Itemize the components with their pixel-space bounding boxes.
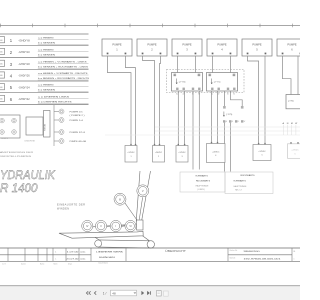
frame column ticks	[1, 24, 293, 28]
pilot line bus 1	[155, 126, 300, 128]
svg-text:1.07.00: 1.07.00	[67, 251, 80, 253]
svg-text:4: 4	[10, 74, 13, 79]
drawing frame top border	[0, 25, 300, 27]
svg-text:M: M	[291, 123, 293, 125]
svg-text:-GHD/Y8: -GHD/Y8	[18, 40, 30, 42]
toolbar snapshot icon	[156, 291, 161, 296]
svg-text:-GHD/Y34: -GHD/Y34	[18, 87, 30, 89]
svg-text:a = HEBEN: a = HEBEN	[38, 85, 54, 87]
svg-text:192-97845.08.005-001: 192-97845.08.005-001	[244, 259, 282, 261]
svg-text:6: 6	[294, 153, 295, 155]
supply box +24VDC 5	[253, 143, 271, 161]
function row 2 -GHD/Y10	[0, 48, 89, 56]
valve group dashed enclosure	[167, 70, 245, 93]
pump group bracket	[54, 105, 59, 146]
svg-text:46: 46	[0, 99, 2, 101]
svg-text:3: 3	[10, 62, 13, 67]
valve box Y76 (clipped)	[286, 95, 303, 109]
svg-text:PB: PB	[233, 75, 235, 77]
svg-text:(-Y76): (-Y76)	[288, 101, 294, 103]
company cell LIEBHERR WERK EHINGEN	[96, 251, 124, 264]
toolbar secondary icon	[164, 291, 169, 296]
crawler track	[95, 240, 155, 248]
svg-text:46: 46	[0, 40, 2, 42]
wire pump2 b	[160, 56, 161, 146]
svg-text:WINDEN: WINDEN	[57, 207, 69, 211]
svg-text:VERSTELLPUMPEN: VERSTELLPUMPEN	[0, 156, 32, 158]
svg-text:b = SENKEN + RÜCKWÄRTS - RECHT: b = SENKEN + RÜCKWÄRTS - RECHTS	[38, 77, 90, 80]
svg-text:b = SENKEN + RÜCKWÄRTS - LINKS: b = SENKEN + RÜCKWÄRTS - LINKS	[38, 65, 89, 68]
svg-text:R 1400: R 1400	[0, 181, 38, 195]
footer column labels	[2, 262, 73, 265]
pump box PUMPE 3	[172, 39, 202, 56]
toolbar page input	[111, 290, 137, 296]
svg-text:9840/200: 9840/200	[244, 251, 261, 253]
drawing number cells	[230, 250, 282, 260]
svg-text:LIEBHERR WERK: LIEBHERR WERK	[96, 251, 124, 253]
svg-text:IV: IV	[86, 225, 89, 228]
crane leader lines	[93, 197, 143, 227]
svg-text:1 /: 1 /	[103, 291, 107, 295]
svg-text:a = DREHEN LINKS: a = DREHEN LINKS	[38, 96, 70, 98]
winch position circle I	[110, 220, 121, 231]
svg-text:+24VDC: +24VDC	[258, 151, 266, 153]
svg-text:b = DREHEN RECHTS: b = DREHEN RECHTS	[38, 101, 72, 103]
svg-text:b = SENKEN: b = SENKEN	[38, 90, 56, 92]
pump box PUMPE 2	[137, 39, 167, 56]
crane body	[59, 231, 143, 238]
function row 3 -GHD/Y18	[0, 60, 89, 68]
svg-text:VORWÄRTS: VORWÄRTS	[195, 175, 208, 178]
svg-text:Zeichn.-Nr.: Zeichn.-Nr.	[230, 250, 238, 252]
solenoid valve Y70	[172, 73, 203, 96]
terminal panel B	[25, 117, 44, 143]
wire Y71 out2	[217, 91, 219, 144]
winch position circle V	[137, 185, 149, 197]
crane pivot housing	[137, 220, 144, 230]
svg-text:a = HEBEN: a = HEBEN	[38, 38, 54, 40]
svg-text:-GHD/Y10: -GHD/Y10	[18, 52, 30, 54]
svg-text:PUMPE: PUMPE	[182, 42, 191, 46]
svg-text:PB: PB	[198, 75, 200, 77]
terminal strip STROM	[44, 111, 51, 138]
function label box hauptwinde rechts	[225, 172, 273, 194]
svg-text:+24VDC: +24VDC	[291, 149, 299, 151]
svg-text:weiss: weiss	[80, 258, 85, 260]
svg-text:STROM: STROM	[45, 123, 47, 131]
svg-text:b = SENKEN: b = SENKEN	[38, 54, 56, 56]
svg-text:VI: VI	[129, 225, 132, 228]
supply box +24VDC 2	[153, 144, 165, 162]
svg-text:PUMPE: PUMPE	[287, 42, 296, 46]
svg-text:NR 2+7: NR 2+7	[235, 190, 241, 192]
winch position circle II	[95, 220, 106, 231]
wire Y70 out2	[184, 91, 186, 146]
svg-text:Bl.: Bl.	[294, 251, 297, 253]
wire Y70 out1	[177, 91, 179, 146]
wire pump6 a	[283, 56, 292, 95]
wire pump6 b	[297, 56, 299, 95]
svg-text:+24VDC: +24VDC	[212, 151, 220, 153]
svg-text:( LINKS ): ( LINKS )	[197, 189, 205, 191]
supply box +24VDC 4	[207, 142, 226, 163]
row separator lines	[0, 34, 89, 105]
svg-text:A: A	[283, 122, 285, 125]
wire pump4 a	[212, 56, 214, 73]
svg-text:5: 5	[10, 85, 13, 90]
pilot line bus 3	[105, 134, 300, 136]
crane boom line b	[142, 171, 151, 222]
svg-text:46: 46	[0, 87, 2, 89]
svg-text:(-Y 71): (-Y 71)	[214, 81, 221, 83]
toolbar prev-page button	[94, 291, 96, 294]
svg-text:( PUMPE 2 ): ( PUMPE 2 )	[70, 115, 85, 117]
svg-text:b = SENKEN: b = SENKEN	[38, 43, 56, 45]
net labels A N M W	[283, 122, 299, 135]
svg-text:EHINGEN: EHINGEN	[99, 257, 115, 259]
wire pump4 b	[230, 56, 232, 73]
svg-text:PUMPE: PUMPE	[112, 42, 121, 46]
svg-text:+24VDC: +24VDC	[155, 152, 163, 154]
function row 4 -GHD/Y26	[0, 72, 90, 80]
wire to Y75 PB	[231, 91, 243, 106]
svg-text:PUMPE 4/8+GB: PUMPE 4/8+GB	[70, 141, 87, 143]
function label box hauptwinde links	[180, 172, 225, 192]
winch position circle III	[114, 193, 126, 205]
svg-text:5: 5	[261, 155, 262, 157]
pump box PUMPE 1	[102, 39, 132, 56]
svg-text:2: 2	[10, 50, 13, 55]
svg-text:-GHD/Y26: -GHD/Y26	[18, 76, 30, 78]
revision cells	[55, 251, 85, 260]
svg-text:W: W	[244, 121, 246, 123]
svg-text:ÜBERSICHT: ÜBERSICHT	[165, 250, 187, 253]
crane support strut a	[95, 237, 100, 240]
svg-text:III: III	[119, 197, 121, 201]
title block grid	[0, 248, 300, 261]
crane boom line a	[136, 171, 140, 222]
viewer toolbar background	[0, 286, 300, 300]
svg-text:GERÄTE: GERÄTE	[1, 137, 9, 140]
svg-text:46: 46	[0, 75, 2, 77]
pump box PUMPE 4	[207, 39, 237, 56]
svg-text:DEU/LPE/GB: DEU/LPE/GB	[25, 141, 36, 143]
svg-text:PUMPE: PUMPE	[252, 42, 261, 46]
svg-text:RÜCKWÄRTS: RÜCKWÄRTS	[196, 179, 211, 182]
svg-text:PUMPE 2+6: PUMPE 2+6	[70, 120, 85, 122]
svg-text:-GHD/Y42: -GHD/Y42	[18, 99, 30, 101]
winch position circle IV	[82, 220, 93, 231]
svg-text:Urspr.: Urspr.	[68, 263, 73, 265]
svg-text:4.: 4.	[55, 251, 57, 253]
svg-text:+24VDC: +24VDC	[127, 152, 135, 154]
svg-text:1: 1	[10, 38, 13, 43]
toolbar next-page button	[142, 291, 144, 295]
svg-text:1: 1	[294, 258, 295, 260]
svg-text:W: W	[295, 123, 298, 125]
svg-text:ANSTEUERUNG DER: ANSTEUERUNG DER	[0, 151, 34, 154]
svg-text:Datum: Datum	[21, 262, 26, 265]
function row 1 -GHD/Y8	[0, 37, 89, 45]
supply box +24VDC 3	[176, 144, 188, 162]
function row 6 -GHD/Y42	[0, 95, 89, 103]
svg-text:+24VDC: +24VDC	[178, 152, 186, 154]
pilot line bus 2	[155, 130, 300, 132]
wire pump1 a	[108, 56, 132, 146]
svg-text:4: 4	[215, 155, 216, 157]
svg-text:Datum Name: Datum Name	[99, 262, 109, 265]
wire Y71 out1	[211, 91, 213, 144]
wire Y75 out1	[223, 123, 225, 172]
wire pump1 b	[126, 56, 136, 146]
svg-text:-GHD/Y18: -GHD/Y18	[18, 64, 30, 66]
svg-text:1 2 3: 1 2 3	[2, 263, 6, 265]
wire pump5 b	[264, 56, 266, 145]
wire Y70 out3	[192, 91, 194, 170]
svg-text:VORWÄRTS: VORWÄRTS	[233, 180, 246, 183]
svg-text:V: V	[142, 189, 144, 193]
supply box +24VDC 1	[125, 144, 137, 162]
svg-text:3: 3	[181, 156, 182, 158]
winch position circle VI	[125, 220, 136, 231]
sheet number cells	[294, 251, 297, 260]
svg-text:2: 2	[158, 156, 159, 158]
svg-text:PUMPE 3/7+8: PUMPE 3/7+8	[70, 132, 87, 134]
title text HYDRAULIK R 1400	[0, 168, 56, 195]
toolbar first-page button	[86, 291, 90, 294]
solenoid valve Y75	[223, 106, 246, 123]
wire Y75 out2	[230, 123, 232, 172]
svg-text:21.07.00: 21.07.00	[66, 258, 79, 260]
svg-text:(-Y 70): (-Y 70)	[179, 81, 186, 83]
svg-text:6: 6	[10, 97, 13, 102]
svg-text:weiss: weiss	[80, 251, 85, 253]
svg-text:1: 1	[130, 156, 131, 158]
wire pump5 a	[248, 56, 259, 145]
wire pump3 a	[177, 56, 179, 73]
svg-text:EINBAUORTE DER: EINBAUORTE DER	[57, 202, 85, 206]
svg-text:a = HEBEN + VORWÄRTS - LINKS: a = HEBEN + VORWÄRTS - LINKS	[38, 60, 87, 63]
svg-text:RÜCKWÄRTS: RÜCKWÄRTS	[240, 174, 255, 177]
svg-text:Name: Name	[40, 263, 44, 265]
svg-text:B1: B1	[227, 93, 229, 95]
svg-text:PUMPE: PUMPE	[217, 42, 226, 46]
svg-text:46: 46	[0, 64, 2, 66]
svg-text:46: 46	[0, 52, 2, 54]
svg-text:N: N	[287, 123, 289, 125]
terminal panel A	[0, 115, 20, 140]
pump box PUMPE 6	[277, 39, 307, 56]
svg-text:PUMPE 1/5: PUMPE 1/5	[70, 111, 84, 113]
toolbar last-page button	[147, 291, 150, 295]
note text einbauorte der winden	[57, 202, 85, 210]
svg-text:HAUPTWINDE: HAUPTWINDE	[234, 185, 247, 188]
svg-text:M: M	[232, 121, 234, 123]
svg-text:1.: 1.	[55, 258, 57, 260]
svg-text:(-Y75): (-Y75)	[226, 114, 232, 116]
svg-text:Ident-Nr.: Ident-Nr.	[230, 256, 237, 259]
function row 5 -GHD/Y34	[0, 84, 89, 92]
svg-text:Norm: Norm	[54, 263, 59, 265]
svg-text:a = HEBEN: a = HEBEN	[38, 49, 54, 51]
svg-text:48: 48	[112, 291, 116, 295]
note text ansteuerung	[0, 151, 34, 158]
wire to Y75 PA	[223, 91, 225, 106]
svg-text:PUMPE: PUMPE	[147, 42, 156, 46]
wire Y70 out4	[198, 91, 200, 170]
crane support strut b	[143, 236, 150, 241]
svg-text:B2: B2	[233, 93, 235, 95]
pump node circles	[59, 109, 87, 144]
svg-text:a = HEBEN + VORWÄRTS - RECHTS: a = HEBEN + VORWÄRTS - RECHTS	[38, 72, 88, 75]
svg-text:A: A	[226, 120, 227, 123]
svg-text:HAUPTWINDE: HAUPTWINDE	[196, 184, 209, 187]
svg-text:B: B	[238, 121, 239, 123]
supply box +24VDC 6	[288, 142, 303, 158]
solenoid valve Y71	[207, 73, 238, 96]
wire pump2 a	[143, 56, 155, 146]
wire pump3 b	[195, 56, 197, 73]
pump box PUMPE 5	[242, 39, 272, 56]
